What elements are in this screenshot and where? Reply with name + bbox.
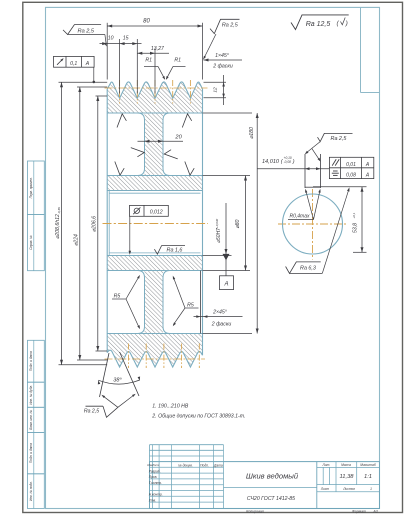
svg-text:2 фаски: 2 фаски bbox=[211, 321, 232, 327]
dimension 53,8 bbox=[313, 187, 367, 253]
roughness mark web left bbox=[131, 148, 145, 157]
svg-text:Шкив ведомый: Шкив ведомый bbox=[246, 472, 299, 481]
svg-text:A: A bbox=[365, 162, 370, 168]
svg-text:0,01: 0,01 bbox=[346, 162, 356, 168]
label R5 left bbox=[112, 275, 140, 329]
title block small texts bbox=[147, 463, 376, 503]
svg-text:Лист: Лист bbox=[151, 463, 160, 467]
note 1 bbox=[152, 404, 189, 410]
svg-text:Подп.: Подп. bbox=[200, 463, 209, 467]
material bbox=[247, 496, 295, 502]
svg-text:R5: R5 bbox=[187, 302, 194, 308]
dimension o208.6 o224 o206.6 lines bbox=[59, 82, 108, 364]
label R5 right bbox=[173, 276, 199, 327]
svg-text:12: 12 bbox=[213, 87, 219, 93]
svg-text:): ) bbox=[345, 20, 348, 27]
svg-text:Дата: Дата bbox=[213, 463, 223, 467]
svg-text:Ra 2,5: Ra 2,5 bbox=[84, 409, 99, 415]
svg-text:1. 190...210 НВ: 1. 190...210 НВ bbox=[152, 404, 189, 410]
label o206.6 bbox=[91, 216, 97, 232]
svg-text:15: 15 bbox=[123, 35, 129, 41]
label o224 bbox=[73, 234, 79, 246]
recess top-right bbox=[163, 113, 203, 176]
dimension o80 bbox=[203, 176, 251, 271]
svg-text:Ra 2,5: Ra 2,5 bbox=[331, 136, 348, 142]
svg-text:Пров.: Пров. bbox=[149, 475, 158, 479]
recess top-left bbox=[107, 113, 144, 176]
roughness mark web right bbox=[164, 150, 178, 159]
label o208.6h12 bbox=[55, 207, 61, 239]
roughness mark recess TL top bbox=[117, 114, 126, 128]
svg-text:⌀206,6: ⌀206,6 bbox=[91, 216, 97, 232]
svg-text:Ra 12,5: Ra 12,5 bbox=[306, 21, 331, 28]
svg-text:A: A bbox=[223, 281, 228, 287]
margin box Справ. № bbox=[28, 215, 45, 271]
margin box Подп. и дата bbox=[28, 340, 45, 382]
kopiroval bbox=[246, 510, 263, 514]
svg-text:1: 1 bbox=[370, 487, 372, 491]
roughness Ra6,3 keyway bottom bbox=[286, 187, 350, 273]
svg-text:10: 10 bbox=[108, 35, 114, 41]
top-right designation box bbox=[361, 7, 380, 92]
margin box Перв. примен. bbox=[28, 161, 45, 215]
roughness general Ra12,5 bbox=[291, 15, 349, 30]
slope tolerance frame 0,1 A bbox=[54, 56, 96, 83]
centerlines main view bbox=[103, 80, 209, 368]
svg-text:Перв. примен.: Перв. примен. bbox=[29, 177, 33, 198]
roughness Ra1,6 bore bbox=[154, 246, 185, 255]
svg-text:Ra 1,6: Ra 1,6 bbox=[167, 247, 183, 253]
margin box Взам. инв. № bbox=[28, 407, 45, 432]
svg-text:0,08: 0,08 bbox=[346, 172, 356, 178]
svg-text:+0,1: +0,1 bbox=[352, 212, 356, 218]
svg-text:13,27: 13,27 bbox=[151, 46, 165, 52]
svg-text:R1: R1 bbox=[174, 58, 181, 64]
dimension 14,010 keyway bbox=[258, 156, 330, 170]
svg-text:Утв.: Утв. bbox=[149, 498, 157, 502]
format label bbox=[352, 510, 378, 514]
svg-text:Н.контр.: Н.контр. bbox=[149, 493, 163, 497]
svg-text:Подп. и дата: Подп. и дата bbox=[29, 443, 33, 463]
svg-text:Ra 6,3: Ra 6,3 bbox=[300, 266, 316, 272]
roughness mark recess TL bottom bbox=[115, 162, 124, 176]
roughness Ra2,5 keyway bbox=[305, 133, 353, 161]
svg-text:A: A bbox=[365, 172, 370, 178]
bore circle bbox=[283, 194, 343, 254]
margin box Инв. № дубл. bbox=[28, 382, 45, 407]
svg-text:38°: 38° bbox=[113, 378, 122, 384]
svg-text:Масса: Масса bbox=[341, 463, 351, 467]
svg-text:Ra 2,5: Ra 2,5 bbox=[78, 29, 95, 35]
svg-text:Подп. и дата: Подп. и дата bbox=[29, 351, 33, 371]
drawing frame bbox=[46, 7, 380, 508]
svg-text:Разраб.: Разраб. bbox=[149, 469, 161, 473]
svg-text:A: A bbox=[85, 61, 90, 67]
dimension 12 groove depth bbox=[204, 75, 227, 105]
recess bottom-left bbox=[107, 271, 144, 334]
recess bottom-right bbox=[163, 271, 203, 334]
dimensions 10 and 15 bbox=[100, 35, 156, 93]
svg-text:Т.контр.: Т.контр. bbox=[149, 481, 162, 485]
dimension 2x45 2 chamfers bbox=[194, 310, 243, 328]
svg-text:Масштаб: Масштаб bbox=[360, 463, 376, 467]
roughness Ra2,5 top-left bbox=[63, 25, 107, 47]
keyway slot bbox=[305, 154, 321, 188]
dimension o50H7 with datum A bbox=[203, 203, 234, 290]
svg-text:Справ. №: Справ. № bbox=[29, 235, 33, 250]
dimension 38 deg bbox=[98, 352, 140, 397]
svg-text:Формат: Формат bbox=[352, 510, 366, 514]
svg-text:⌀80: ⌀80 bbox=[235, 219, 241, 228]
svg-text:14,010: 14,010 bbox=[262, 159, 280, 165]
svg-text:1:1: 1:1 bbox=[364, 474, 372, 480]
dimension o180 bbox=[203, 113, 259, 334]
svg-text:СЧ20 ГОСТ 1412-85: СЧ20 ГОСТ 1412-85 bbox=[247, 496, 295, 502]
svg-text:2×45°: 2×45° bbox=[212, 310, 227, 316]
title block spare rows bbox=[150, 445, 224, 462]
dimension 80 bbox=[107, 19, 202, 80]
svg-text:): ) bbox=[292, 159, 295, 165]
svg-text:-0,08: -0,08 bbox=[284, 160, 291, 164]
title block grid bbox=[150, 462, 380, 509]
dimension 1x45 2 chamfers bbox=[204, 53, 243, 69]
roughness Ra2,5 groove flanks bbox=[84, 394, 136, 418]
svg-text:0,1: 0,1 bbox=[70, 61, 77, 67]
svg-text:Копировал: Копировал bbox=[246, 510, 263, 514]
svg-text:11,38: 11,38 bbox=[339, 474, 354, 480]
svg-text:Лит.: Лит. bbox=[322, 463, 331, 467]
roughness mark recess TR bottom bbox=[185, 162, 194, 176]
part name bbox=[246, 472, 299, 481]
svg-text:R5: R5 bbox=[114, 294, 121, 300]
labels R1 R1 bbox=[144, 58, 186, 80]
svg-text:1×45°: 1×45° bbox=[215, 53, 229, 59]
tolerance frames parallel symmetry bbox=[329, 157, 373, 178]
dimension 20 web bbox=[138, 135, 184, 143]
svg-text:Взам. инв. №: Взам. инв. № bbox=[29, 409, 33, 429]
chamfer line right bbox=[200, 271, 202, 334]
svg-text:2 фаски: 2 фаски bbox=[212, 63, 233, 69]
svg-text:Лист: Лист bbox=[320, 487, 330, 491]
svg-text:⌀180: ⌀180 bbox=[249, 127, 255, 139]
svg-text:53,8: 53,8 bbox=[352, 223, 358, 233]
margin box Подп. и дата bbox=[28, 432, 45, 473]
roughness mark recess TR top bbox=[182, 114, 191, 128]
dimension 13,27 bbox=[137, 46, 169, 55]
svg-text:Инв. № дубл.: Инв. № дубл. bbox=[29, 385, 33, 405]
label R0,4max bbox=[288, 189, 321, 220]
svg-text:0,012: 0,012 bbox=[150, 209, 163, 215]
pulley outline bbox=[107, 82, 202, 367]
section hatching bbox=[107, 82, 202, 367]
svg-text:Ra 2,5: Ra 2,5 bbox=[222, 22, 239, 28]
margin box Инв. № подл. bbox=[28, 474, 45, 509]
svg-text:20: 20 bbox=[174, 135, 182, 141]
svg-text:А3: А3 bbox=[372, 510, 377, 514]
svg-text:⌀224: ⌀224 bbox=[73, 234, 79, 246]
centerlines circle view bbox=[278, 189, 348, 260]
svg-text:R0,4max: R0,4max bbox=[289, 214, 310, 220]
svg-text:2. Общие допуски по ГОСТ 30893: 2. Общие допуски по ГОСТ 30893.1-m. bbox=[151, 413, 245, 419]
roughness Ra2,5 top-right bbox=[203, 19, 240, 60]
svg-text:R1: R1 bbox=[145, 58, 152, 64]
svg-text:№ докум.: № докум. bbox=[178, 463, 193, 467]
note 2 bbox=[151, 413, 245, 419]
svg-text:Листов: Листов bbox=[342, 487, 355, 491]
svg-text:Инв. № подл.: Инв. № подл. bbox=[29, 481, 33, 501]
cylindricity tolerance 0,012 bbox=[129, 205, 169, 254]
svg-text:80: 80 bbox=[143, 19, 150, 25]
